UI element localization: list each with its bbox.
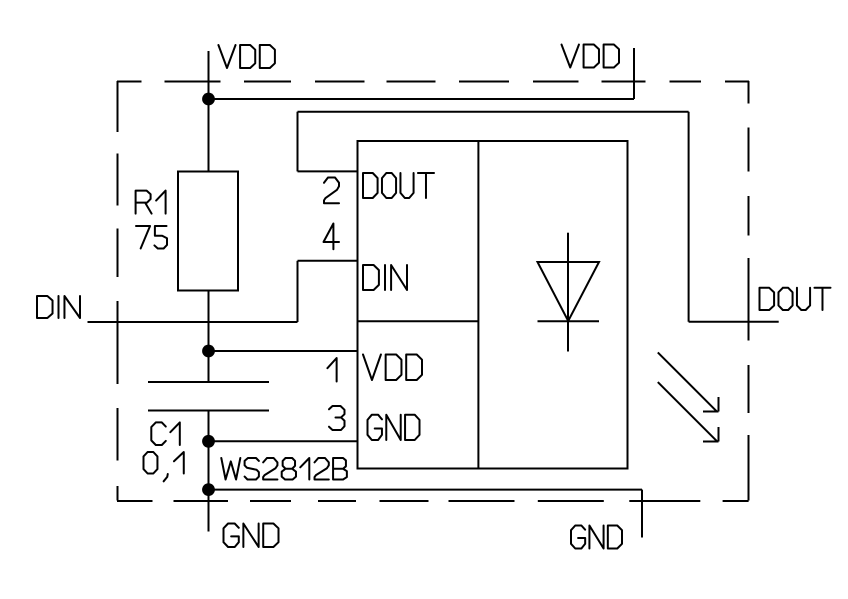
pin number 1 — [327, 358, 336, 382]
wire DOUT drop — [688, 112, 690, 322]
U1 internal vertical divider — [477, 141, 479, 469]
node pin1 VDD junction — [202, 345, 215, 358]
net label DIN (left) — [37, 296, 80, 318]
node GND bus junction — [202, 483, 215, 496]
capacitor C1 top plate — [148, 381, 269, 383]
pin name GND — [368, 415, 420, 440]
wire pin 3 GND — [209, 440, 358, 442]
wire DIN input — [88, 321, 298, 323]
wire C1 bottom to GND terminal — [208, 411, 210, 532]
net label GND (bottom right) — [571, 526, 622, 549]
part name WS2812B — [221, 458, 347, 480]
wire DOUT output terminal — [689, 321, 779, 323]
net label GND (bottom left) — [224, 524, 279, 548]
LED anode lead — [567, 233, 569, 262]
wire VDD left terminal vertical — [208, 51, 210, 172]
emission arrow 2 — [658, 382, 719, 441]
node VDD junction — [202, 93, 215, 106]
wire VDD right terminal vertical — [633, 48, 635, 99]
emission arrow 1 — [658, 352, 719, 411]
LED triangle — [538, 262, 600, 321]
module boundary dashed right — [748, 81, 750, 501]
IC U1 WS2812B body outline — [358, 141, 628, 469]
net label DOUT (right) — [760, 288, 831, 310]
reference label C1 — [151, 422, 180, 445]
pin name DOUT — [363, 173, 434, 198]
module boundary dashed bottom — [117, 500, 749, 502]
reference label R1 — [136, 191, 166, 214]
wire GND bus — [209, 489, 643, 491]
module boundary dashed top — [117, 81, 749, 83]
wire pin 2 stub — [298, 170, 358, 172]
wire DOUT top run — [298, 111, 689, 113]
LED cathode bar — [538, 320, 600, 322]
pin number 3 — [329, 406, 345, 430]
net label VDD (top left) — [218, 45, 275, 68]
U1 internal horizontal divider — [358, 320, 479, 322]
wire pin 4 stub — [298, 260, 358, 262]
wire VDD horizontal bus — [209, 98, 635, 100]
net label VDD (top right) — [562, 45, 620, 68]
node pin3 GND junction — [202, 435, 215, 448]
resistor R1 — [178, 172, 238, 291]
pin number 2 — [324, 178, 339, 204]
pin number 4 — [324, 224, 340, 250]
value label 0,1 — [144, 452, 184, 481]
pin name VDD — [363, 355, 422, 381]
wire pin 1 VDD — [209, 350, 358, 352]
value label 75 — [136, 226, 167, 249]
wire DIN riser — [297, 261, 299, 322]
module boundary dashed left — [117, 81, 119, 501]
wire DOUT riser — [297, 112, 299, 172]
LED inner lead — [567, 262, 569, 321]
wire GND right terminal vertical — [641, 490, 643, 538]
capacitor C1 bottom plate — [148, 410, 269, 412]
pin name DIN — [363, 265, 407, 290]
wire R1 bottom to C1 — [208, 291, 210, 383]
LED cathode lead — [567, 321, 569, 351]
